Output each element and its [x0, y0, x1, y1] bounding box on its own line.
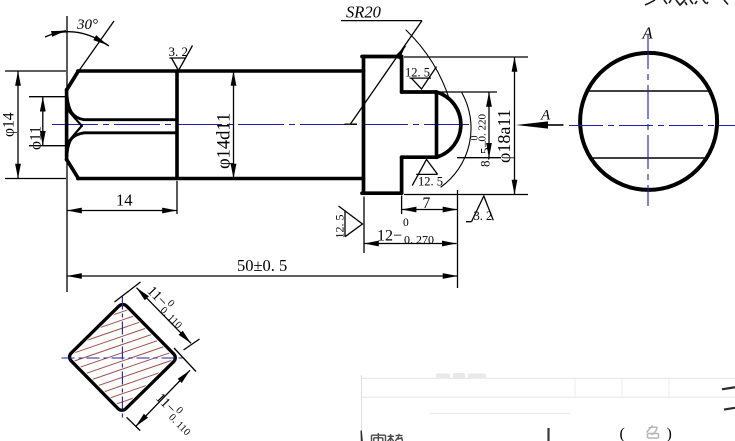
SE dim extension line (right vertex): [174, 348, 196, 372]
12 dimension line: [364, 243, 457, 245]
8.5 dimension line: [488, 92, 490, 158]
svg-text:0. 110: 0. 110: [158, 305, 184, 331]
svg-text:14: 14: [116, 191, 133, 210]
30deg arc arrow right: [97, 39, 108, 45]
label 8.5 with tolerance (rotated): [470, 114, 493, 168]
svg-text:φ14: φ14: [1, 112, 18, 137]
svg-text:12. 5: 12. 5: [405, 66, 430, 80]
gray (name) note: [620, 426, 672, 441]
dark table edge mark right 2: [724, 408, 735, 410]
30deg arc arrow left: [52, 31, 66, 34]
svg-text:12. 5: 12. 5: [418, 175, 443, 189]
faint title smudge text: [436, 373, 486, 379]
section arrow A tail: [548, 124, 564, 126]
svg-text:0: 0: [403, 217, 409, 229]
roughness 12.5 on boss top: [410, 67, 437, 89]
svg-text:): ): [667, 426, 672, 441]
roughness 12.5 on boss bottom: [412, 159, 437, 185]
slot lower line: [67, 133, 177, 154]
svg-text:0. 270: 0. 270: [404, 233, 434, 247]
SR20 leader arrowhead: [398, 46, 406, 57]
NE dim extension line (right vertex): [184, 339, 200, 350]
slot upper line: [67, 96, 177, 120]
svg-text:8. 5−: 8. 5−: [478, 140, 493, 167]
flange bottom: [362, 191, 402, 195]
hatching of section: [50, 260, 200, 441]
roughness 3.2 on shaft top: triangle + tail: [170, 46, 193, 71]
glyph fragment 2: [664, 0, 671, 4]
glyph fragment 1: [645, 0, 655, 5]
30deg dimension arc: [45, 32, 109, 46]
flange left edge: [362, 57, 366, 194]
end view horizontal centerline: [569, 125, 735, 127]
phi14 dimension line: [17, 71, 19, 179]
dark table edge mark right 1: [722, 387, 735, 389]
7 dim left extension: [401, 196, 403, 215]
flange top extension line: [404, 56, 528, 58]
50 dim right extension line: [457, 190, 459, 288]
8.5 extension lines: [438, 92, 501, 158]
center-hole V upper: [68, 110, 82, 126]
vertical divider at bottom: [547, 428, 549, 441]
7 dimension line: [402, 209, 458, 211]
SE dim text 11 -0/-0.110: [150, 389, 199, 439]
phi11 extension lines: [29, 97, 66, 146]
word he (of shenhe, clipped): [388, 434, 403, 441]
svg-text:0. 110: 0. 110: [166, 412, 192, 438]
section vertical centerline: [121, 297, 123, 421]
12 dim left extension: [363, 197, 365, 254]
center-hole V lower: [68, 126, 82, 143]
end view circle outline: [580, 53, 717, 190]
svg-text:3. 2: 3. 2: [474, 209, 493, 223]
gray ming glyph strokes: [647, 426, 659, 439]
NE dimension line: [137, 288, 192, 344]
thick bar left of shenhe: [361, 431, 363, 441]
svg-text:50±0. 5: 50±0. 5: [237, 256, 287, 275]
section square outline: [67, 302, 177, 412]
slot end / section step line: [175, 71, 179, 179]
phi14 extension lines: [5, 71, 66, 179]
faint block column lines: [575, 378, 669, 397]
flange top: [362, 55, 402, 59]
flange bottom extension line (to phi18 dim): [404, 194, 528, 196]
svg-text:φ11: φ11: [28, 126, 45, 150]
spherical end cap SR20: [437, 92, 461, 157]
extension line: left face vertical (30deg + 14 + 50 dims): [66, 16, 68, 292]
glyph fragment 6: [724, 0, 728, 5]
lower flat chord: [589, 157, 708, 159]
boss end face: [435, 92, 439, 157]
faint block row line 1: [362, 377, 735, 379]
sphere construction arc upper: [406, 30, 450, 101]
flange right face upper: [400, 57, 404, 93]
svg-text:30°: 30°: [76, 17, 98, 33]
roughness 12.5 sideways on flange left face: [339, 206, 363, 237]
glyph fragment 4: [690, 0, 697, 4]
svg-text:SR20: SR20: [346, 3, 382, 22]
NE dim extension line (top vertex): [115, 282, 141, 302]
NE dim text 11 -0/-0.110: [142, 282, 191, 332]
SE dimension line: [136, 370, 190, 426]
shaft top outline: [78, 69, 364, 73]
faint block row line 3: [430, 412, 570, 414]
svg-text:φ14d11: φ14d11: [215, 113, 235, 169]
chamfer angle construction line: [78, 21, 114, 72]
svg-text:12−: 12−: [377, 228, 402, 245]
faint block row line 2: [362, 396, 735, 398]
chamfer top-left: [67, 71, 79, 90]
glyph fragment 5: [703, 0, 708, 4]
phi11 dimension line: [42, 97, 44, 146]
boss bottom: [402, 155, 437, 159]
SE dim extension line (bottom vertex): [127, 417, 141, 430]
main axis centerline: [52, 124, 469, 126]
svg-text:0: 0: [470, 136, 481, 141]
upper flat chord: [586, 90, 712, 92]
boss top: [402, 90, 437, 94]
glyph fragment 3: [676, 0, 687, 5]
14 dim right extension: [176, 181, 178, 214]
svg-text:A: A: [540, 108, 551, 124]
svg-text:3. 2: 3. 2: [169, 44, 189, 59]
word shen (of shenhe, clipped): [372, 433, 386, 441]
faint block left border: [361, 375, 363, 441]
50 dimension line: [67, 275, 458, 277]
section horizontal centerline: [62, 357, 186, 359]
end view vertical centerline: [647, 35, 649, 206]
svg-text:(: (: [620, 426, 625, 441]
left end face: [65, 90, 69, 161]
svg-text:A: A: [642, 24, 654, 43]
SR20 leader line: [341, 21, 422, 125]
svg-text:12. 5: 12. 5: [333, 215, 347, 239]
sphere construction arc outer: [441, 93, 471, 187]
chamfer bottom-left: [67, 160, 79, 179]
flange right face lower: [400, 157, 404, 193]
roughness 3.2 near phi18 extension (triangle with text inside): [466, 196, 493, 222]
14 dimension line: [67, 210, 177, 212]
svg-text:7: 7: [423, 195, 431, 212]
shaft bottom outline: [78, 177, 364, 181]
svg-text:φ18a11: φ18a11: [494, 109, 514, 163]
phi14d11 dimension line: [233, 71, 235, 179]
phi18a11 dimension line: [514, 57, 516, 195]
section arrow A solid head: [516, 121, 548, 128]
